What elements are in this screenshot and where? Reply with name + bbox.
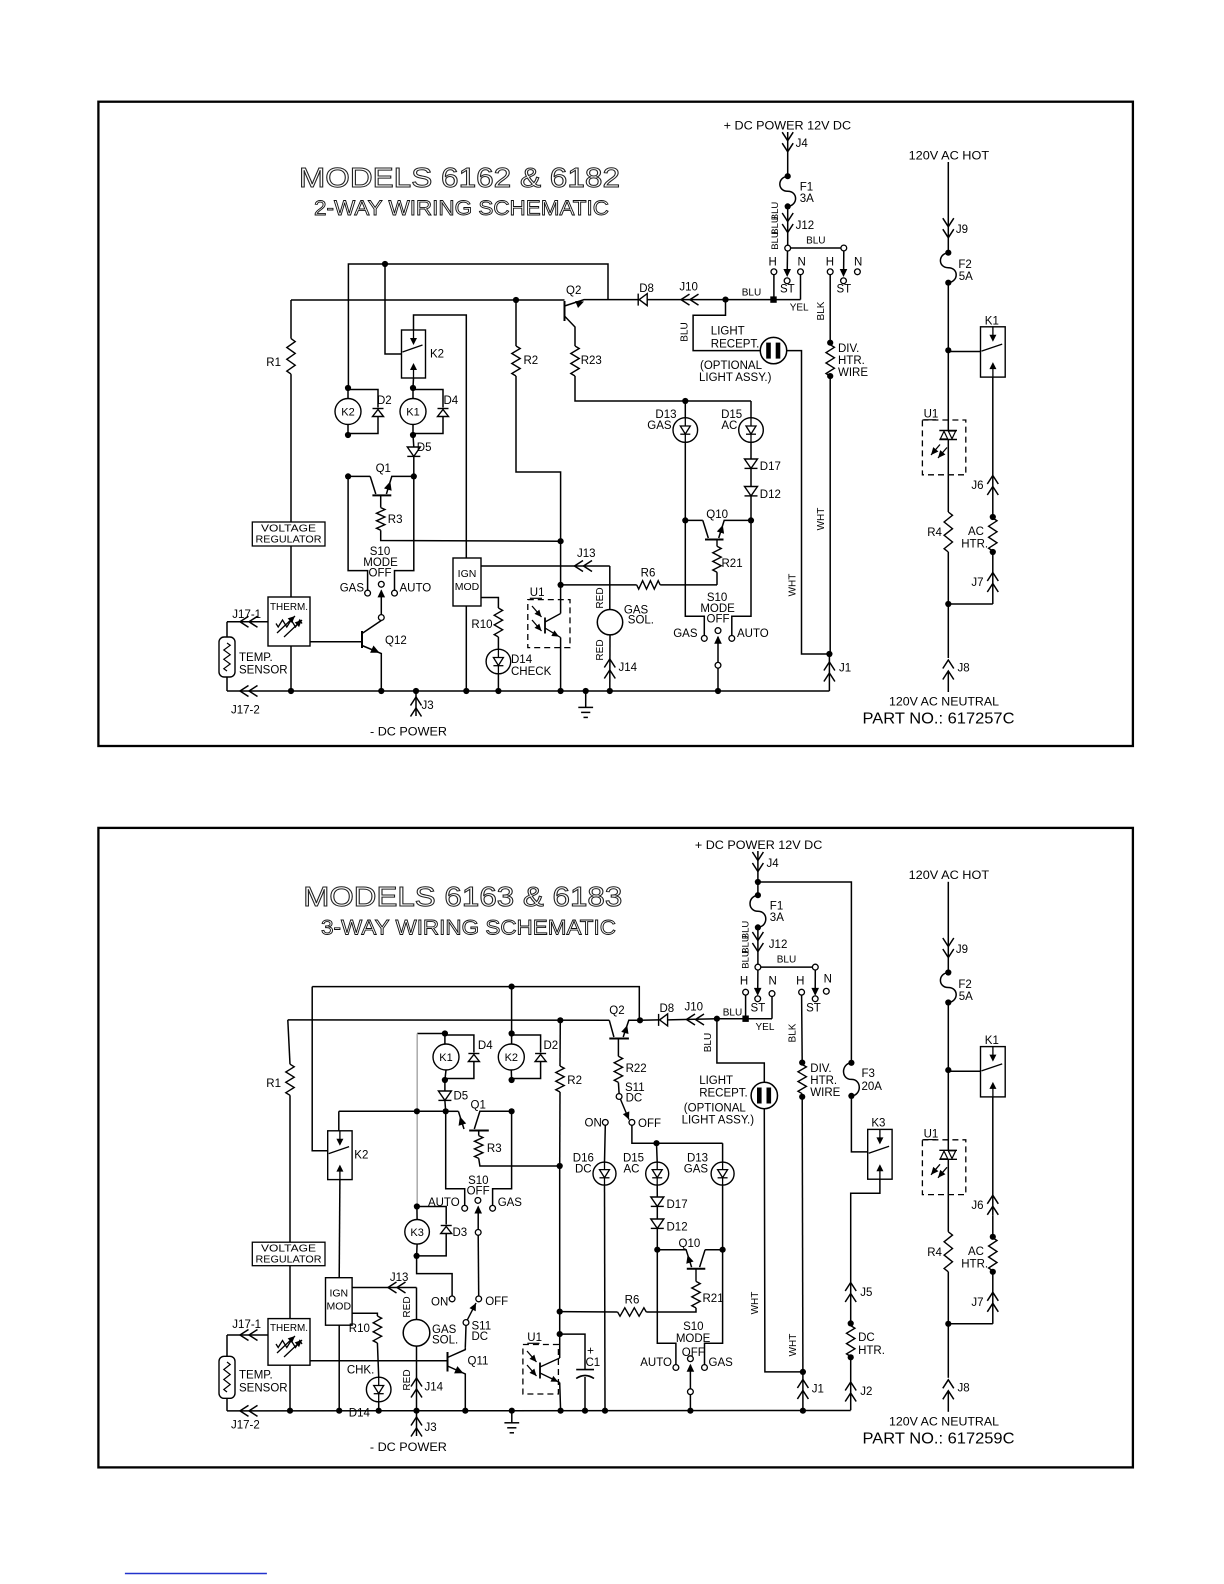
wire R2 to R3 node xyxy=(559,1092,561,1166)
wire U1 vertical xyxy=(560,541,562,613)
connector J7 xyxy=(992,1272,994,1324)
node top rail junction xyxy=(382,261,388,267)
svg-text:F2: F2 xyxy=(958,979,971,991)
connector J17-1 xyxy=(227,1334,268,1336)
node K3 coil top xyxy=(414,1203,420,1209)
svg-text:ST: ST xyxy=(780,284,795,296)
switch S11 DC upper xyxy=(617,1082,620,1093)
svg-text:J13: J13 xyxy=(390,1272,409,1284)
svg-text:YEL: YEL xyxy=(790,303,809,314)
svg-text:U1: U1 xyxy=(924,1128,939,1140)
wire K1 to J6 xyxy=(992,377,994,496)
LED D14 CHECK xyxy=(497,637,499,649)
wire D8 to junction xyxy=(668,1019,717,1020)
svg-text:J4: J4 xyxy=(796,138,809,150)
resistor R21 xyxy=(695,1269,697,1282)
connector J6 xyxy=(987,476,998,485)
svg-text:ON: ON xyxy=(585,1118,602,1130)
svg-text:RED: RED xyxy=(595,639,606,660)
svg-text:K1: K1 xyxy=(439,1052,452,1064)
svg-text:GAS: GAS xyxy=(673,628,698,640)
wire U1 vertical xyxy=(559,1334,561,1358)
svg-text:J8: J8 xyxy=(958,1382,970,1394)
wire F2 to K1 node xyxy=(947,1003,949,1071)
resistor R1 xyxy=(290,300,292,339)
wire IGN MOD to R10 xyxy=(352,1313,377,1316)
svg-text:GAS: GAS xyxy=(647,420,672,432)
svg-text:J17-1: J17-1 xyxy=(232,609,261,621)
svg-text:Q1: Q1 xyxy=(376,463,391,475)
wire THERM to Q11 base xyxy=(310,1360,448,1362)
svg-text:R4: R4 xyxy=(927,527,942,539)
svg-text:BLU: BLU xyxy=(703,1033,714,1052)
wire DC HTR to bus end xyxy=(850,1357,852,1410)
diode D2 xyxy=(512,1035,541,1053)
svg-text:5A: 5A xyxy=(959,271,973,283)
wire D12 line to S10 AUTO xyxy=(732,520,751,635)
svg-text:Q2: Q2 xyxy=(609,1005,624,1017)
svg-text:J14: J14 xyxy=(425,1382,444,1394)
triac U1 light arrows xyxy=(931,445,940,456)
connector J9 xyxy=(943,938,954,947)
wire R6 rail xyxy=(561,584,637,586)
switch S10 wiper arrow xyxy=(477,1207,479,1230)
svg-text:Q10: Q10 xyxy=(679,1238,701,1250)
wire to K1 relay xyxy=(948,351,980,353)
svg-text:K2: K2 xyxy=(430,349,444,361)
resistor R3 xyxy=(478,1131,480,1136)
resistor AC HTR xyxy=(989,1238,997,1271)
wire D16 to bus xyxy=(604,1185,607,1411)
switch S11 common and blade xyxy=(463,1320,469,1326)
svg-text:K3: K3 xyxy=(410,1227,423,1239)
svg-text:OFF: OFF xyxy=(467,1186,490,1198)
wire D5 node to S10 AUTO xyxy=(446,1111,465,1205)
svg-text:J8: J8 xyxy=(958,663,970,675)
svg-text:R2: R2 xyxy=(567,1075,582,1087)
temperature sensor TEMP SENSOR xyxy=(226,622,228,637)
svg-text:J1: J1 xyxy=(812,1384,824,1396)
node Q1 base xyxy=(345,473,351,479)
svg-text:K3: K3 xyxy=(871,1118,885,1130)
wire R2 down to R3 node xyxy=(516,376,561,541)
diode D2 xyxy=(348,390,378,408)
wire junction to light receptacle xyxy=(717,1019,764,1083)
svg-text:R2: R2 xyxy=(524,355,539,367)
switch S10 lower wiper xyxy=(689,1365,691,1389)
capacitor C1 xyxy=(560,1334,585,1370)
connector J6 xyxy=(987,1195,998,1204)
svg-text:R1: R1 xyxy=(266,1078,281,1090)
connector J1 xyxy=(802,1372,804,1410)
switch A ST arrow xyxy=(757,970,759,993)
svg-text:MOD: MOD xyxy=(455,581,480,593)
svg-text:BLU: BLU xyxy=(680,322,691,341)
relay K1 contact box xyxy=(981,1047,1006,1097)
node R3/R2 junction xyxy=(558,538,564,544)
wire Q1 base to S10 GAS xyxy=(348,476,368,590)
connector J17-2 xyxy=(240,686,249,697)
diode D5 xyxy=(412,435,415,447)
wire K2 relay to IGN MOD xyxy=(338,1180,341,1278)
node AC HTR top xyxy=(992,496,994,517)
optocoupler U1 internals xyxy=(532,606,542,617)
wire ground bus xyxy=(227,1410,851,1412)
wire IGN MOD to J13 xyxy=(352,1287,416,1289)
connector J10 xyxy=(687,1014,696,1025)
svg-text:(OPTIONAL: (OPTIONAL xyxy=(684,1103,747,1115)
svg-text:TEMP.: TEMP. xyxy=(239,652,273,664)
svg-text:120V AC HOT: 120V AC HOT xyxy=(909,148,990,162)
svg-text:N: N xyxy=(768,976,776,988)
svg-text:R4: R4 xyxy=(927,1247,942,1259)
svg-text:OFF: OFF xyxy=(485,1296,508,1308)
switch S10 wiper arrow xyxy=(380,591,382,615)
node switch B common xyxy=(841,245,847,251)
svg-text:120V AC NEUTRAL: 120V AC NEUTRAL xyxy=(889,1414,999,1428)
wire Q2 collector node to D8 xyxy=(608,299,638,301)
switch S11 ON contact xyxy=(449,1296,455,1302)
svg-text:HTR.: HTR. xyxy=(961,1258,988,1270)
svg-text:D12: D12 xyxy=(760,489,781,501)
svg-text:J12: J12 xyxy=(796,220,815,232)
wire switch B H down BLK xyxy=(801,995,804,1063)
svg-text:N: N xyxy=(798,257,806,269)
LED D13 GAS xyxy=(684,401,686,418)
wire through U1 xyxy=(947,1070,949,1150)
LED D15 AC xyxy=(750,401,752,418)
wire R4 to J8 xyxy=(947,1272,949,1378)
node K1 coil top xyxy=(442,1030,448,1036)
wire to K2 relay blade xyxy=(385,264,402,354)
svg-text:WHT: WHT xyxy=(750,1292,761,1315)
node K1 feed xyxy=(945,1067,951,1073)
wire AC HOT down xyxy=(947,162,949,253)
svg-text:HTR.: HTR. xyxy=(858,1345,885,1357)
switch S10 right GAS contact xyxy=(701,636,707,642)
svg-text:Q10: Q10 xyxy=(706,509,728,521)
node AC HTR bottom xyxy=(990,549,996,555)
svg-text:K2: K2 xyxy=(505,1052,518,1064)
wire K2 coil top from rail xyxy=(511,987,513,1034)
module IGN MOD box xyxy=(326,1278,353,1326)
svg-text:BLU: BLU xyxy=(770,231,781,250)
svg-text:ST: ST xyxy=(806,1003,821,1015)
svg-text:LIGHT: LIGHT xyxy=(699,1075,733,1087)
svg-text:3A: 3A xyxy=(770,912,784,924)
node K2 coil top rail xyxy=(509,984,515,990)
svg-text:LIGHT ASSY.): LIGHT ASSY.) xyxy=(699,372,772,384)
node K1 feed xyxy=(945,347,951,353)
svg-text:MOD: MOD xyxy=(327,1301,352,1313)
wire K3 bottom to DC HTR rail xyxy=(851,1179,880,1323)
svg-text:MODE: MODE xyxy=(676,1333,711,1345)
svg-text:MODELS 6163 & 6183: MODELS 6163 & 6183 xyxy=(303,881,622,912)
svg-text:OFF: OFF xyxy=(369,568,392,580)
wire BLU to switch B xyxy=(761,966,813,968)
node neutral junction xyxy=(945,601,951,607)
svg-text:F1: F1 xyxy=(770,901,783,913)
resistor R10 xyxy=(494,608,502,637)
switch S10 lower GAS contact xyxy=(702,1365,708,1371)
node Q1 emitter / D5 xyxy=(411,473,417,479)
switch S10 GAS contact xyxy=(490,1205,496,1211)
svg-text:Q1: Q1 xyxy=(471,1100,486,1112)
node DIV HTR bottom xyxy=(827,373,833,379)
wire R3 node to R6 node xyxy=(559,1166,561,1312)
svg-text:SENSOR: SENSOR xyxy=(239,665,288,677)
svg-text:J17-2: J17-2 xyxy=(231,705,260,717)
svg-text:J17-1: J17-1 xyxy=(232,1319,261,1331)
svg-text:D12: D12 xyxy=(667,1222,688,1234)
diode D5 xyxy=(444,1080,446,1091)
node J1 junction xyxy=(826,651,832,657)
svg-text:H: H xyxy=(826,257,834,269)
svg-text:+ DC POWER 12V DC: + DC POWER 12V DC xyxy=(695,838,823,852)
svg-text:K1: K1 xyxy=(406,407,419,419)
svg-text:R6: R6 xyxy=(641,568,656,580)
wire AC HOT down xyxy=(947,882,949,973)
wire D8 to J10 xyxy=(647,299,725,301)
svg-text:D14: D14 xyxy=(511,654,533,666)
svg-text:OFF: OFF xyxy=(638,1118,661,1130)
wire R21 to R6 rail xyxy=(646,1308,696,1312)
svg-text:GAS: GAS xyxy=(340,583,365,595)
relay K2 contact box xyxy=(402,330,426,378)
wire J7 to neutral node xyxy=(948,603,993,605)
wire K3 bottom to S11 ON xyxy=(417,1256,453,1296)
wire S11 OFF to LED rail xyxy=(632,1125,723,1143)
svg-text:R10: R10 xyxy=(471,619,492,631)
node K2 coil top xyxy=(345,385,351,391)
wire DIV HTR to J1 node WHT xyxy=(801,1097,804,1372)
node DC HTR bottom xyxy=(848,1354,854,1360)
wire to light receptacle xyxy=(693,300,761,351)
svg-text:D5: D5 xyxy=(454,1091,469,1103)
svg-text:D5: D5 xyxy=(417,442,432,454)
switch S10 common xyxy=(475,1198,481,1204)
wire TEMP SENSOR to bus xyxy=(226,677,228,691)
svg-text:RED: RED xyxy=(402,1296,413,1317)
svg-text:J3: J3 xyxy=(422,700,434,712)
relay coil K2 xyxy=(511,1034,513,1045)
node square junction YEL xyxy=(770,296,776,302)
switch B ST arrow xyxy=(843,251,845,274)
svg-text:D4: D4 xyxy=(478,1040,493,1052)
wire GAS SOL to bus xyxy=(609,635,611,691)
wire K2 relay top to IGN MOD xyxy=(414,315,467,558)
wire DIV HTR to J1 node (WHT) xyxy=(829,376,831,654)
svg-text:N: N xyxy=(824,974,832,986)
connector J14 xyxy=(411,1378,422,1387)
node K2 coil top xyxy=(509,1030,515,1036)
node grey junction xyxy=(414,1108,420,1114)
node J4 branch xyxy=(755,879,761,885)
wire F1 to J12 xyxy=(757,927,759,964)
svg-text:PART NO.: 617259C: PART NO.: 617259C xyxy=(863,1430,1015,1447)
relay coil K3 xyxy=(416,1207,418,1220)
resistor R21 xyxy=(716,572,718,585)
svg-text:GAS: GAS xyxy=(709,1357,734,1369)
switch S10 AUTO contact xyxy=(462,1205,468,1211)
svg-text:ON: ON xyxy=(431,1297,448,1309)
thermistor THERM box xyxy=(268,1319,310,1366)
fuse F1 3A xyxy=(780,176,796,206)
svg-text:H: H xyxy=(796,976,804,988)
wire to K1 relay xyxy=(948,1070,980,1072)
diode D8 xyxy=(637,294,639,306)
svg-text:N: N xyxy=(854,257,862,269)
wire ground bus xyxy=(227,690,829,692)
connector J14 xyxy=(604,659,615,668)
module IGN MOD box xyxy=(453,558,481,606)
svg-text:TEMP.: TEMP. xyxy=(239,1370,273,1382)
svg-text:MODELS 6162 & 6182: MODELS 6162 & 6182 xyxy=(299,162,620,193)
wire top rail left down to K2 relay xyxy=(312,987,328,1151)
triac U1 symbol xyxy=(939,1149,957,1151)
svg-text:LIGHT: LIGHT xyxy=(711,326,745,338)
wire R1 to bus xyxy=(289,1095,291,1411)
wire LED rail xyxy=(685,400,751,402)
svg-text:K2: K2 xyxy=(341,407,354,419)
connector J8 xyxy=(943,1380,954,1389)
svg-text:SOL.: SOL. xyxy=(432,1335,458,1347)
connector J4 xyxy=(757,851,759,882)
svg-text:PART NO.: 617257C: PART NO.: 617257C xyxy=(863,711,1015,728)
svg-text:BLU: BLU xyxy=(777,955,796,966)
box VOLTAGE REGULATOR xyxy=(252,522,325,546)
svg-text:BLK: BLK xyxy=(787,1023,798,1042)
svg-text:S10: S10 xyxy=(683,1321,703,1333)
svg-text:YEL: YEL xyxy=(756,1022,775,1033)
wire main 12V rail xyxy=(288,1019,610,1021)
node D5 bottom xyxy=(443,1108,449,1114)
svg-text:CHK.: CHK. xyxy=(347,1365,374,1377)
svg-text:J9: J9 xyxy=(956,944,968,956)
resistor R2 xyxy=(515,300,517,346)
svg-text:J7: J7 xyxy=(971,1297,983,1309)
svg-text:R3: R3 xyxy=(388,514,403,526)
svg-text:REGULATOR: REGULATOR xyxy=(256,534,322,546)
svg-text:D3: D3 xyxy=(453,1227,468,1239)
svg-text:THERM.: THERM. xyxy=(270,1322,308,1334)
wire square to N line xyxy=(774,299,801,301)
light receptacle socket xyxy=(760,337,786,363)
node Q10 base / D13 xyxy=(682,517,688,523)
connector J10 xyxy=(681,294,690,305)
svg-text:DC: DC xyxy=(626,1093,643,1105)
svg-text:J1: J1 xyxy=(839,663,851,675)
wire THERM to Q12 base xyxy=(310,641,362,643)
svg-text:J6: J6 xyxy=(971,1200,983,1212)
resistor R22 xyxy=(617,1039,619,1057)
svg-text:ST: ST xyxy=(751,1003,766,1015)
svg-text:J5: J5 xyxy=(860,1287,872,1299)
svg-text:Q2: Q2 xyxy=(566,285,581,297)
node K1 coil bottom xyxy=(442,1077,448,1083)
node K2 bottom / Q1 base xyxy=(509,1108,515,1114)
svg-text:J7: J7 xyxy=(971,577,983,589)
connector J13 xyxy=(575,561,584,572)
svg-text:R21: R21 xyxy=(722,558,743,570)
wire D13 down to Q10 base xyxy=(722,1185,724,1250)
svg-text:CHECK: CHECK xyxy=(511,666,552,678)
triac U1 light arrows xyxy=(931,1164,940,1175)
wire receptacle down WHT to J1 node xyxy=(764,1109,803,1372)
node R3/R2 junction xyxy=(557,1163,563,1169)
connector J13 xyxy=(388,1282,397,1293)
switch S10 GAS contact xyxy=(365,590,371,596)
svg-text:(OPTIONAL: (OPTIONAL xyxy=(700,360,763,372)
switch B ST arrow xyxy=(814,970,816,993)
resistor R3 xyxy=(380,495,382,507)
node Q10 emitter / D12 xyxy=(748,517,754,523)
svg-text:IGN: IGN xyxy=(458,568,477,580)
switch S10 lower common xyxy=(688,1356,694,1362)
svg-text:D14: D14 xyxy=(349,1408,371,1420)
svg-text:U1: U1 xyxy=(530,587,545,599)
diode D12 xyxy=(750,469,752,487)
svg-text:K1: K1 xyxy=(985,315,999,327)
connector J12 xyxy=(782,213,793,222)
svg-text:R21: R21 xyxy=(703,1293,724,1305)
wire S10 wiper to S11 OFF xyxy=(477,1235,480,1296)
svg-text:F1: F1 xyxy=(800,182,813,194)
svg-text:Q12: Q12 xyxy=(385,635,407,647)
diode D17 xyxy=(750,442,752,459)
svg-text:HTR.: HTR. xyxy=(838,355,865,367)
connector J4 xyxy=(787,132,789,176)
LED D15 AC xyxy=(656,1143,659,1162)
svg-text:R6: R6 xyxy=(625,1295,640,1307)
ground xyxy=(511,1411,513,1423)
svg-text:F2: F2 xyxy=(958,259,971,271)
switch S10 right common xyxy=(715,628,721,634)
svg-text:WHT: WHT xyxy=(816,508,827,531)
node J1 junction xyxy=(800,1369,806,1375)
diode D4 xyxy=(413,390,443,408)
wire IGN MOD to R10 xyxy=(481,598,498,609)
svg-text:BLU: BLU xyxy=(741,950,752,969)
switch S10 lower AUTO contact xyxy=(673,1365,679,1371)
node R2 top xyxy=(513,297,519,303)
svg-text:3-WAY WIRING SCHEMATIC: 3-WAY WIRING SCHEMATIC xyxy=(321,916,616,940)
footer blue rule xyxy=(125,1573,267,1575)
node junction BLU wire xyxy=(722,297,728,303)
node D13 top xyxy=(682,398,688,404)
wire switch B H down BLK xyxy=(829,275,831,343)
switch S10 common xyxy=(378,581,384,587)
svg-text:D17: D17 xyxy=(667,1199,688,1211)
svg-text:J10: J10 xyxy=(685,1002,704,1014)
node K2 coil bottom xyxy=(509,1077,515,1083)
svg-text:ST: ST xyxy=(836,284,851,296)
node switch A common xyxy=(785,245,791,251)
wire TEMP SENSOR to bus xyxy=(226,1398,228,1411)
svg-text:HTR.: HTR. xyxy=(961,539,988,551)
svg-text:HTR.: HTR. xyxy=(810,1075,837,1087)
svg-text:D2: D2 xyxy=(377,395,392,407)
diode D3 xyxy=(417,1207,446,1225)
resistor R4 xyxy=(944,1232,952,1272)
node Q2 emitter junction xyxy=(637,1017,643,1023)
node R6 junction xyxy=(557,1309,563,1315)
switch S11 DC OFF contact xyxy=(629,1120,635,1126)
svg-text:SENSOR: SENSOR xyxy=(239,1383,288,1395)
connector J17-1 xyxy=(227,621,268,623)
svg-text:J4: J4 xyxy=(767,858,780,870)
connector J9 xyxy=(943,218,954,227)
